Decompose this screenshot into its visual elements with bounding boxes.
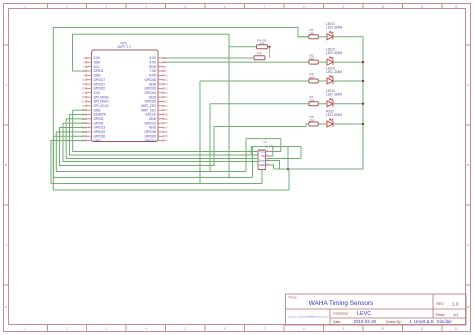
svg-text:WAHA Timing Sensors: WAHA Timing Sensors: [309, 300, 373, 307]
svg-text:JWPT 2.2: JWPT 2.2: [117, 45, 131, 49]
svg-text:LED-3MM: LED-3MM: [326, 70, 342, 74]
svg-text:LED-3MM: LED-3MM: [326, 26, 342, 30]
svg-text:2019-03-28: 2019-03-28: [354, 319, 377, 324]
svg-text:LEVC: LEVC: [357, 311, 371, 317]
svg-text:A: A: [467, 83, 469, 87]
svg-text:B: B: [5, 163, 7, 167]
svg-text:C: C: [5, 243, 7, 247]
svg-text:J. Unett & E. Sinclair: J. Unett & E. Sinclair: [409, 319, 452, 324]
svg-text:REV:: REV:: [437, 302, 445, 306]
svg-text:easyeda.com/junett/WAHA-timing: easyeda.com/junett/WAHA-timing-sensors: [288, 316, 330, 319]
svg-text:470: 470: [257, 52, 262, 56]
svg-text:GPIO21: GPIO21: [144, 139, 156, 143]
svg-text:A: A: [5, 83, 7, 87]
svg-text:220: 220: [309, 119, 314, 123]
svg-text:D: D: [5, 305, 7, 309]
svg-text:1/1: 1/1: [453, 312, 459, 317]
svg-text:GND: GND: [259, 163, 265, 167]
svg-text:220: 220: [309, 76, 314, 80]
svg-text:Company:: Company:: [333, 312, 349, 316]
svg-text:B: B: [467, 163, 469, 167]
svg-text:220: 220: [309, 98, 314, 102]
svg-text:330: 330: [260, 42, 265, 46]
svg-text:Trig: Trig: [260, 154, 265, 158]
svg-text:LED-3MM: LED-3MM: [326, 93, 342, 97]
svg-text:LED-3MM: LED-3MM: [326, 113, 342, 117]
svg-text:GND: GND: [94, 139, 102, 143]
svg-text:1.0: 1.0: [452, 301, 459, 306]
svg-text:VCC: VCC: [259, 150, 265, 154]
svg-text:Drawn By:: Drawn By:: [386, 320, 402, 324]
svg-text:C: C: [467, 243, 469, 247]
svg-text:Sheet:: Sheet:: [436, 313, 446, 317]
svg-text:LED-3MM: LED-3MM: [326, 51, 342, 55]
svg-text:Echo: Echo: [259, 159, 266, 163]
svg-text:Date:: Date:: [333, 320, 341, 324]
svg-text:220: 220: [309, 31, 314, 35]
svg-text:220: 220: [309, 57, 314, 61]
svg-text:TITLE:: TITLE:: [288, 296, 297, 300]
svg-text:D: D: [467, 305, 469, 309]
svg-text:U2: U2: [264, 140, 268, 144]
